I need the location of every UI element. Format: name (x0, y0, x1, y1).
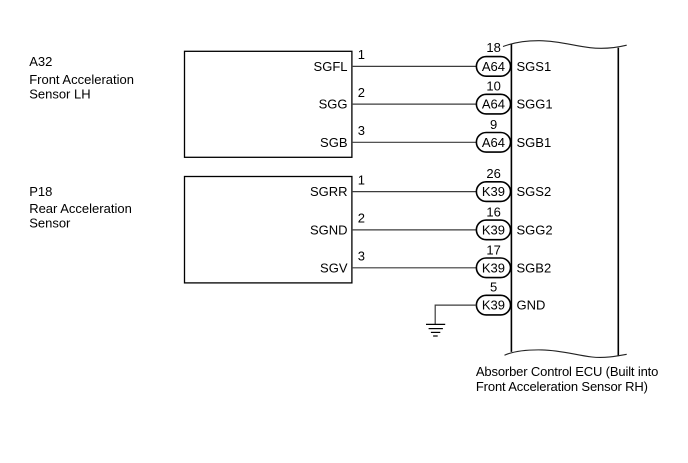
wire SGND to K39 pin 16 (352, 229, 477, 231)
connector A64 pin 9 oval (476, 133, 510, 153)
svg-text:SGB: SGB (320, 135, 347, 150)
svg-text:A32: A32 (29, 54, 52, 69)
svg-text:Sensor: Sensor (29, 215, 71, 230)
svg-text:SGFL: SGFL (314, 59, 348, 74)
connector A32 name: Front Acceleration Sensor LH (29, 72, 134, 101)
ECU bottom wavy boundary (505, 350, 627, 358)
wire SGG to A64 pin 10 (352, 103, 477, 105)
component box P18 Rear Acceleration Sensor (185, 177, 352, 283)
component box A32 Front Acceleration Sensor LH (185, 51, 352, 157)
svg-text:2: 2 (358, 211, 365, 226)
svg-text:K39: K39 (482, 223, 505, 238)
connector A64 pin 18 oval (476, 57, 510, 77)
svg-text:SGG2: SGG2 (517, 222, 553, 237)
svg-text:9: 9 (490, 117, 497, 132)
svg-text:SGG: SGG (319, 97, 348, 112)
ECU caption: Absorber Control ECU (Built into Front Acceleration Sensor RH) (476, 364, 658, 394)
svg-text:17: 17 (486, 242, 500, 257)
connector K39 pin 26 oval (476, 182, 510, 202)
svg-text:A64: A64 (482, 59, 505, 74)
svg-text:Front Acceleration: Front Acceleration (29, 72, 134, 87)
svg-text:K39: K39 (482, 260, 505, 275)
svg-text:2: 2 (358, 85, 365, 100)
svg-text:P18: P18 (29, 184, 52, 199)
svg-text:SGRR: SGRR (310, 184, 348, 199)
wire SGRR to K39 pin 26 (352, 191, 477, 193)
svg-text:SGB2: SGB2 (517, 260, 552, 275)
connector K39 pin 16 oval (476, 220, 510, 240)
svg-text:Rear Acceleration: Rear Acceleration (29, 201, 132, 216)
ECU right edge (617, 48, 619, 356)
svg-text:SGS1: SGS1 (517, 59, 552, 74)
wire ground to K39 pin 5 (435, 305, 476, 324)
svg-text:18: 18 (486, 40, 500, 55)
connector K39 pin 5 oval (476, 295, 510, 315)
svg-text:SGS2: SGS2 (517, 184, 552, 199)
svg-text:Absorber Control ECU (Built in: Absorber Control ECU (Built into (476, 364, 658, 379)
svg-text:A64: A64 (482, 97, 505, 112)
wire SGFL to A64 pin 18 (352, 65, 477, 67)
connector P18 name: Rear Acceleration Sensor (29, 201, 132, 230)
ECU top wavy boundary (503, 41, 627, 49)
svg-text:SGND: SGND (310, 222, 348, 237)
connector K39 pin 17 oval (476, 258, 510, 278)
svg-text:SGG1: SGG1 (517, 97, 553, 112)
svg-text:26: 26 (486, 166, 500, 181)
svg-text:5: 5 (490, 280, 497, 295)
svg-text:Front Acceleration Sensor RH): Front Acceleration Sensor RH) (476, 379, 648, 394)
wire SGV to K39 pin 17 (352, 267, 477, 269)
ECU left edge (510, 44, 512, 352)
svg-text:3: 3 (358, 123, 365, 138)
svg-text:3: 3 (358, 249, 365, 264)
svg-text:10: 10 (486, 79, 500, 94)
svg-text:Sensor LH: Sensor LH (29, 86, 90, 101)
svg-text:K39: K39 (482, 298, 505, 313)
ground symbol (426, 324, 445, 336)
svg-text:1: 1 (358, 172, 365, 187)
svg-text:16: 16 (486, 205, 500, 220)
svg-text:K39: K39 (482, 184, 505, 199)
svg-text:SGB1: SGB1 (517, 135, 552, 150)
svg-text:A64: A64 (482, 135, 505, 150)
svg-text:SGV: SGV (320, 260, 348, 275)
wire SGB to A64 pin 9 (352, 141, 477, 143)
svg-text:GND: GND (517, 298, 546, 313)
svg-text:1: 1 (358, 47, 365, 62)
connector A64 pin 10 oval (476, 94, 510, 114)
